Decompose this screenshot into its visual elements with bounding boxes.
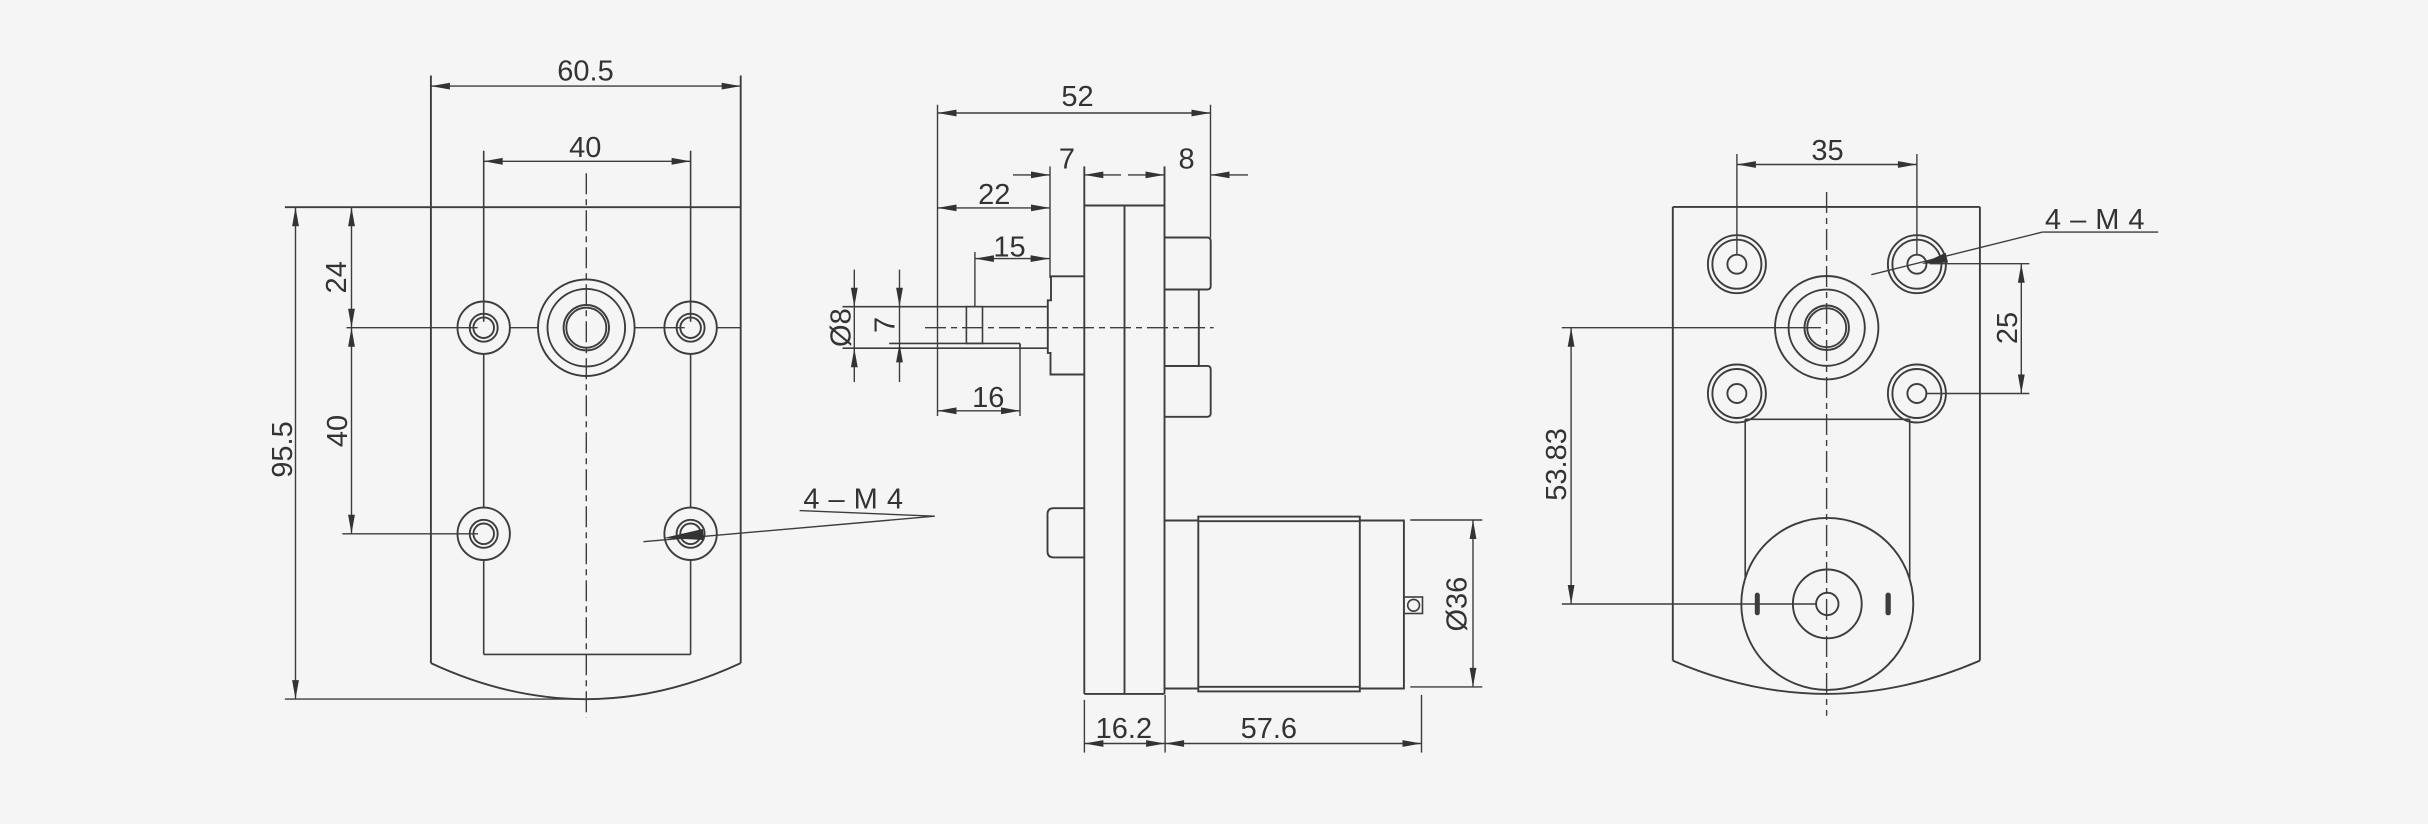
dimension 53.83 [1562,328,1821,604]
dimension 95.5 [295,207,297,699]
screw hole top-right [664,302,716,354]
pinion cover bump [1048,508,1085,557]
shaft flat step [1019,343,1021,348]
gearbox plate right edge + 8 ext [1164,166,1166,694]
svg-text:7: 7 [870,317,902,333]
dimension 60.5 [431,85,741,87]
leader 4-M4 right [1871,232,2158,275]
svg-text:Ø36: Ø36 [1442,577,1474,632]
dimension diameter 36 [1410,520,1482,687]
dimension 52 [938,105,1211,416]
screw hole top-left [458,302,510,354]
plate right edge [1979,207,1981,661]
svg-text:Ø8: Ø8 [826,308,858,347]
output shaft boss [538,279,635,376]
plate bottom edge [1084,693,1164,695]
motor end bell circle [1793,570,1862,639]
plate top edge [1084,205,1164,207]
svg-text:57.6: 57.6 [1241,713,1297,745]
plate left edge [1672,207,1674,661]
dimension 40 top [484,160,691,162]
svg-text:40: 40 [322,415,354,447]
dimension 16 [938,344,1021,416]
hole bottom-right [1888,365,1946,423]
vertical center line [585,173,587,717]
dimension 15 [975,252,1050,307]
shaft top line [843,306,1048,308]
motor can [1198,517,1360,692]
dimension 22 [938,207,1051,209]
gear cover left vertical / 40 ext [484,151,691,655]
hole top-left [1708,235,1766,293]
screw hole bottom-left [458,508,510,560]
svg-text:4–M4: 4–M4 [803,484,912,516]
dimension 35 [1737,154,1917,255]
plate top edge [1673,206,1980,208]
plate bottom arc [431,663,741,699]
dimension 57.6 [1421,695,1423,753]
svg-text:15: 15 [993,232,1025,264]
leader 4-M4 [643,511,934,542]
bottom extension line of 95.5 [285,698,581,700]
gearbox inner plate line [1124,206,1126,694]
dimension diameter 8 [853,270,855,382]
motor vent slot left [1755,593,1760,616]
hole bottom-left [1708,365,1766,423]
gearbox plate left edge + 7 ext [1083,166,1085,694]
screw hole bottom-right [664,508,716,560]
motor vent slot right [1886,593,1891,616]
svg-text:8: 8 [1179,144,1195,176]
left bearing boss steps [1048,276,1085,374]
dimension 8 [1128,174,1248,176]
motor adapter [1165,520,1199,522]
right bump 2 [1165,290,1199,366]
svg-text:24: 24 [321,261,353,293]
right bump 3 [1165,366,1211,417]
dimension 16.2 [1084,695,1421,753]
output boss rear [1775,276,1878,379]
svg-text:60.5: 60.5 [557,56,613,88]
shaft cross hole [966,307,982,344]
gear cover right vertical / 40 ext [690,151,692,322]
svg-text:35: 35 [1811,135,1843,167]
svg-text:52: 52 [1061,81,1093,113]
plate left edge + 60.5 ext [430,76,432,664]
dimension 7 plate [1013,174,1121,176]
dimension 25 [1926,264,2029,394]
plate right edge + 60.5 ext [740,76,742,664]
svg-text:16.2: 16.2 [1096,713,1152,745]
svg-text:95.5: 95.5 [267,421,299,477]
hole top-right [1888,235,1946,293]
dimension 7 shaft flat [899,270,901,382]
dimension 40 vertical [342,328,478,534]
svg-text:7: 7 [1059,144,1075,176]
svg-text:53.83: 53.83 [1541,428,1573,501]
motor shaft hole [1816,593,1838,615]
gearbox body outline behind [1745,419,1910,578]
horizontal hole row line [347,327,741,329]
plate bottom arc [1673,661,1980,694]
svg-text:25: 25 [1992,312,2024,344]
right bump 1 [1165,238,1211,290]
motor terminal [1404,597,1423,614]
vertical center line [1826,192,1828,716]
svg-text:40: 40 [569,132,601,164]
svg-text:22: 22 [978,179,1010,211]
svg-text:16: 16 [972,382,1004,414]
motor end cap [1360,521,1404,689]
shaft axis center line [925,327,1214,329]
shaft flat line [889,342,1020,344]
plate top edge + 95.5 ext [285,206,741,208]
svg-text:4–M4: 4–M4 [2045,204,2154,236]
extension line x=1050 [1049,166,1051,278]
dimension 24 [351,207,353,328]
gear cover bottom edge [484,653,691,655]
shaft bottom line [843,347,1048,349]
motor circle [1741,518,1913,690]
